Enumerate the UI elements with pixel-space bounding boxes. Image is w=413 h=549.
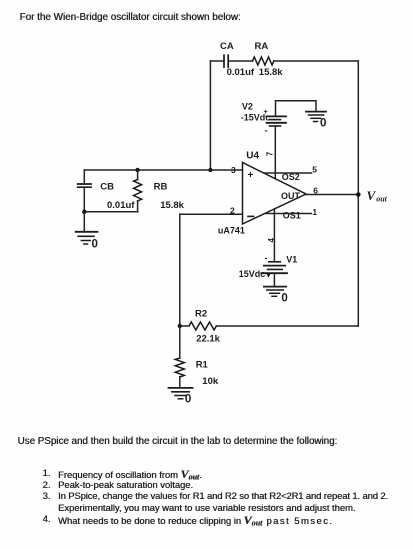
svg-text:+: +	[248, 170, 254, 181]
svg-text:15Vdc: 15Vdc	[239, 269, 266, 279]
svg-text:-: -	[265, 253, 268, 263]
wire pin 3 (non-inverting input net)	[84, 169, 242, 171]
wire CA to RA	[228, 60, 252, 62]
node junction at RB top	[135, 168, 139, 172]
svg-text:6: 6	[313, 186, 318, 196]
capacitor CB	[78, 170, 136, 212]
capacitor CA	[220, 41, 255, 78]
svg-text:7: 7	[265, 151, 274, 156]
wire feedback vertical to R2 junction	[179, 214, 181, 326]
resistor R2	[180, 309, 221, 345]
ground 0 (R1)	[169, 388, 193, 406]
svg-text:4: 4	[267, 238, 276, 243]
node junction R2/R1	[178, 324, 182, 328]
node junction at left vertical / pin3 wire	[208, 168, 212, 172]
wire R2 to Vout rail	[216, 325, 358, 327]
V1 source 15Vdc	[239, 253, 298, 279]
bottom paragraph	[18, 436, 338, 447]
wire CB-RB bottom	[84, 211, 137, 213]
svg-text:0: 0	[185, 394, 191, 406]
OS1 pin 1 lead	[266, 213, 312, 215]
svg-text:0: 0	[320, 118, 326, 130]
V2 source -15Vdc	[241, 101, 286, 136]
svg-text:V2: V2	[242, 102, 253, 112]
wire to ground below CB	[83, 212, 85, 232]
svg-text:10k: 10k	[202, 376, 219, 387]
svg-text:0: 0	[92, 239, 98, 251]
wire pin 7 (V+) from V2	[274, 126, 276, 179]
svg-text:RB: RB	[154, 182, 168, 193]
wire V2 top to ground	[276, 101, 317, 112]
svg-text:0: 0	[281, 293, 287, 305]
node junction at CB bottom	[82, 210, 86, 214]
wire right vertical (Vout rail)	[357, 61, 359, 326]
svg-text:+: +	[264, 107, 269, 116]
OS2 pin 5 lead	[264, 172, 312, 174]
op-amp U4 uA741	[218, 151, 306, 236]
svg-text:3: 3	[231, 165, 236, 175]
svg-text:15.8k: 15.8k	[259, 67, 283, 78]
svg-text:R2: R2	[195, 309, 207, 320]
resistor RA	[253, 41, 284, 78]
ground 0 (V2)	[306, 112, 326, 130]
svg-text:CB: CB	[100, 182, 114, 193]
svg-text:5: 5	[312, 165, 317, 175]
svg-text:OS1: OS1	[283, 211, 301, 221]
numbered list	[43, 467, 51, 478]
wire top feedback: left corner to CA	[210, 60, 224, 62]
svg-text:V1: V1	[286, 255, 297, 265]
svg-text:uA741: uA741	[218, 226, 245, 236]
svg-text:22.1k: 22.1k	[196, 334, 220, 345]
resistor RB	[134, 170, 185, 212]
svg-text:-: -	[265, 126, 268, 136]
svg-text:RA: RA	[255, 41, 269, 52]
node junction Vout	[356, 192, 361, 197]
svg-text:out: out	[376, 194, 387, 203]
svg-text:OS2: OS2	[282, 172, 300, 182]
wire V1 to ground	[273, 273, 275, 286]
svg-text:U4: U4	[246, 151, 259, 162]
svg-text:R1: R1	[196, 360, 209, 371]
ground 0 (below CB)	[76, 232, 98, 251]
wire left vertical	[209, 61, 211, 170]
wire pin 4 (V-) to V1	[273, 209, 275, 262]
svg-text:15.8k: 15.8k	[160, 200, 184, 211]
svg-text:V: V	[367, 188, 377, 203]
ground 0 (V1)	[264, 287, 288, 305]
wire RA to right corner	[274, 60, 359, 62]
svg-text:1: 1	[312, 207, 317, 217]
resistor R1	[175, 326, 219, 388]
svg-text:CA: CA	[220, 41, 234, 52]
wire pin 2 (inverting input)	[180, 213, 243, 215]
Vout net label	[367, 188, 388, 203]
svg-text:0.01uf: 0.01uf	[107, 200, 135, 211]
svg-text:0.01uf: 0.01uf	[227, 67, 255, 78]
OUT pin 6 wire	[306, 194, 358, 196]
top paragraph	[20, 12, 241, 23]
svg-text:OUT: OUT	[281, 191, 301, 201]
